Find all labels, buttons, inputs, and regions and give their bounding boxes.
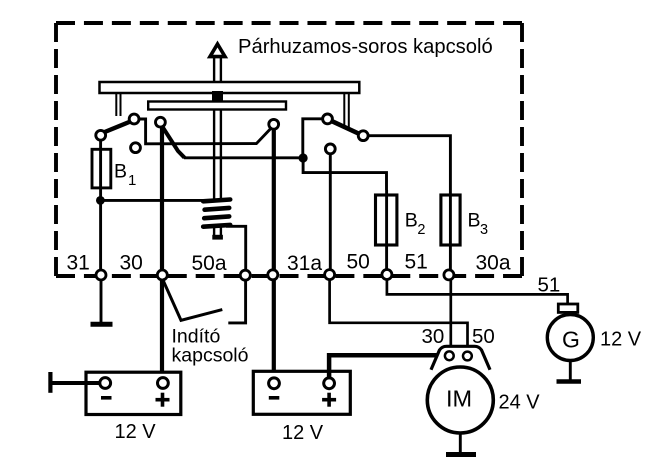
starter motor body IM [427, 367, 493, 433]
starter motor solenoid cap [431, 346, 490, 370]
actuator shaft end cap [212, 235, 223, 240]
lever of contact C (thick) [161, 125, 184, 158]
battery 2 plus sign [322, 393, 336, 407]
svg-text:3: 3 [480, 222, 488, 238]
terminal 50a circle [240, 270, 250, 280]
terminal 31a circle [268, 270, 278, 280]
lever of right switch E-F (thick) [331, 121, 362, 135]
wire: junction down and right to resistor B2 [303, 158, 386, 190]
resistor B1 [92, 149, 111, 188]
battery 1 body [86, 372, 181, 414]
svg-text:51: 51 [405, 251, 428, 274]
wire: terminal 50a to starter switch contact [228, 280, 245, 323]
svg-text:B: B [114, 161, 127, 183]
battery 1 minus sign [101, 396, 112, 400]
contact D (open) [131, 143, 141, 153]
wire: contact G2 down to terminal 50 [329, 154, 332, 270]
label: Indító kapcsoló [172, 326, 249, 367]
svg-text:24 V: 24 V [499, 391, 541, 413]
battery 1 negative terminal [100, 378, 111, 389]
svg-text:50: 50 [347, 251, 370, 274]
junction node dot [299, 153, 308, 162]
wire: E pivot to junction node [303, 119, 324, 154]
contact A [129, 114, 139, 124]
wire: through resistor B3 to terminal 30a [449, 190, 452, 270]
contact B (above B1) [96, 130, 106, 140]
svg-text:30: 30 [422, 325, 445, 348]
terminal 31 circle [96, 270, 106, 280]
svg-text:Párhuzamos-soros kapcsoló: Párhuzamos-soros kapcsoló [238, 36, 493, 58]
wire: starter motor to ground [459, 433, 462, 453]
svg-text:2: 2 [417, 222, 425, 238]
right support of crossbar 1 [344, 93, 349, 129]
battery 1 positive terminal [158, 378, 169, 389]
svg-text:30: 30 [120, 252, 143, 275]
chassis bar at battery 1 [48, 372, 52, 393]
wire: terminal 31 to chassis ground [100, 280, 103, 323]
shaft solid block between plates [212, 91, 223, 103]
svg-text:51: 51 [538, 274, 561, 297]
relay coil winding [203, 200, 230, 227]
svg-text:50: 50 [472, 325, 495, 348]
actuator arrow [210, 44, 225, 57]
actuator shaft lower segment [214, 110, 221, 237]
contact F [358, 131, 368, 141]
ground bar under starter motor [446, 452, 476, 457]
starter motor terminal 30 [445, 351, 454, 360]
battery 2 negative terminal [269, 378, 280, 389]
battery 1 plus sign [156, 393, 170, 407]
svg-text:31a: 31a [287, 252, 322, 275]
terminal 50 circle [325, 270, 335, 280]
label B2 [405, 210, 426, 238]
wire: terminal 30a to starter motor main 30 [449, 280, 452, 355]
resistor B2 [376, 195, 397, 245]
starter motor terminal 50 [463, 352, 472, 361]
wire: through resistor B2 to terminal 51 [385, 190, 388, 270]
starter switch lever (Indító kapcsoló) [162, 279, 222, 321]
junction dot at B1 bottom [96, 196, 105, 205]
svg-text:12 V: 12 V [600, 329, 642, 351]
battery 2 positive terminal [324, 378, 335, 389]
wire: battery 1 negative to chassis [52, 381, 100, 385]
crossbar 2 (lower plate) [148, 102, 286, 110]
label B1 [114, 161, 136, 189]
wire: junction to relay coil [100, 199, 206, 202]
lever of contact B-A (thick) [104, 122, 131, 133]
wire: terminal 50 to starter motor solenoid 50 [330, 280, 468, 355]
wire: B1 branch (contact B down through B1 to terminal 31) [99, 139, 102, 271]
crossbar 1 (upper plate) [100, 82, 360, 93]
contact F2 [269, 119, 279, 129]
svg-text:B: B [405, 210, 418, 232]
battery 2 minus sign [269, 396, 280, 400]
wire: heavy conductor terminal 30 (contact C to battery 1 +) [160, 124, 164, 379]
labels 30 / 50 at starter motor [422, 325, 495, 348]
svg-text:50a: 50a [192, 252, 227, 275]
terminal labels row [67, 251, 511, 276]
contact G2 (open) [325, 144, 335, 154]
generator body G [547, 315, 593, 361]
wire: lever C tip to junction node [184, 156, 300, 159]
ground bar under generator [557, 379, 582, 384]
label B3 [468, 210, 489, 238]
svg-text:12 V: 12 V [282, 422, 324, 444]
wire: terminal 51 to generator [387, 280, 568, 305]
wire: contact A jog to contact F2 [137, 119, 271, 144]
terminal 30 circle [157, 270, 167, 280]
wire: heavy conductor terminal 31a (contact F2 to battery 2 -) [272, 128, 276, 379]
wire: contact F right to resistor B3 [368, 136, 450, 190]
contact E (right pivot) [323, 114, 333, 124]
dashed enclosure (series-parallel switch housing) [56, 23, 522, 276]
svg-text:G: G [562, 326, 580, 352]
left support of crossbar 1 [116, 93, 120, 116]
resistor B3 [441, 195, 460, 245]
svg-text:31: 31 [67, 252, 90, 275]
svg-text:1: 1 [128, 172, 136, 189]
actuator shaft upper segment [214, 56, 221, 83]
chassis ground bar under terminal 31 [91, 322, 113, 327]
terminal 51 circle [382, 270, 392, 280]
wire: coil bottom to terminal 50a [226, 226, 246, 270]
generator terminal box [558, 304, 578, 312]
svg-text:12 V: 12 V [115, 421, 157, 443]
contact C [156, 117, 166, 127]
svg-text:B: B [468, 210, 481, 232]
wire: battery 2 positive to starter motor 30 (heavy) [329, 355, 446, 378]
terminal 30a circle [444, 270, 454, 280]
svg-text:30a: 30a [476, 252, 511, 275]
wire: generator to ground [569, 361, 572, 380]
battery 2 body [253, 371, 350, 414]
svg-text:IM: IM [446, 386, 472, 412]
svg-text:kapcsoló: kapcsoló [172, 345, 249, 367]
